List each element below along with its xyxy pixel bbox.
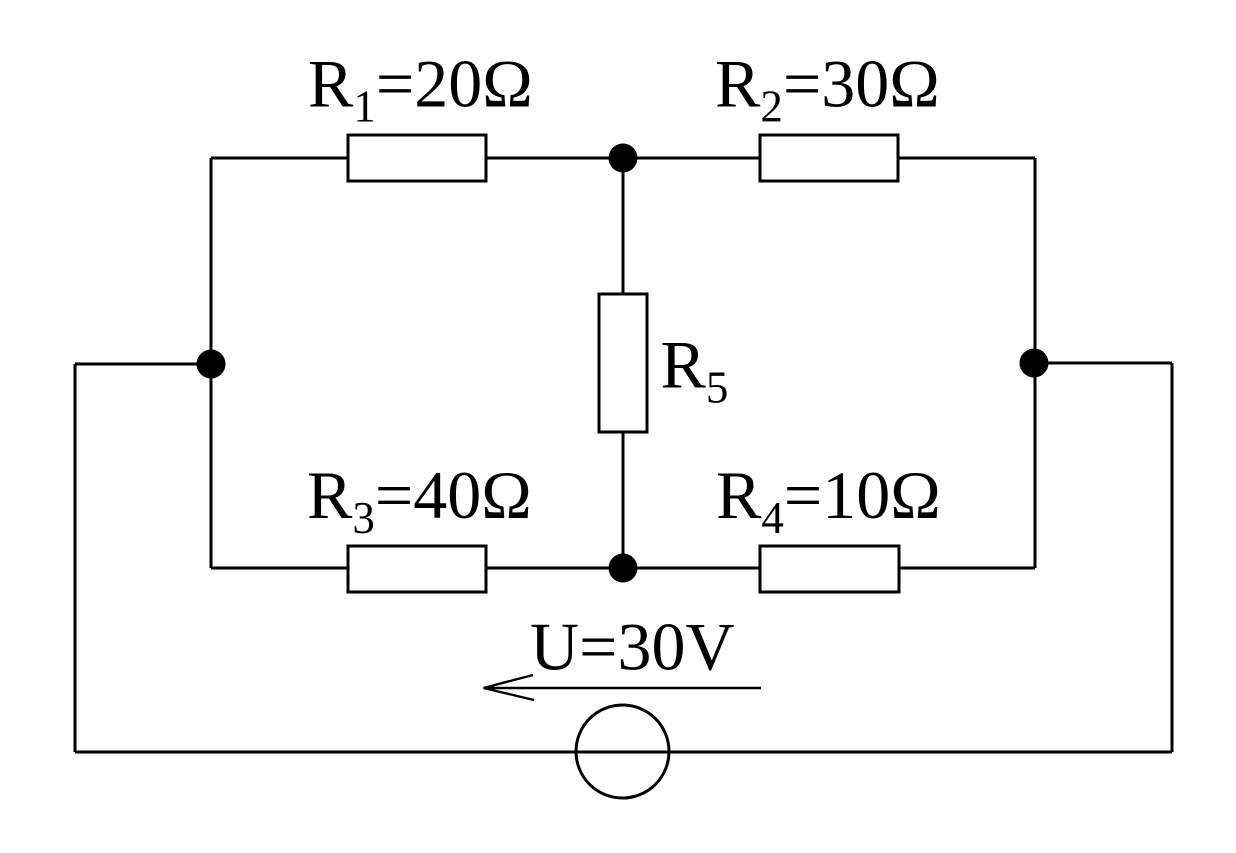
wire bottom-right segment (R4 to right corner) [899,567,1035,570]
wire outer left vertical [74,364,77,752]
svg-text:R2=30Ω: R2=30Ω [715,46,940,132]
svg-text:R3=40Ω: R3=40Ω [307,457,532,543]
wire middle upper vertical (node to R5) [622,158,625,294]
node right (junction R2-R4-source) [1020,349,1049,378]
wire top-middle segment (R1 to R2 through node) [486,157,760,160]
resistor R3 [348,546,486,592]
wire left node stub to outer loop [75,363,211,366]
wire middle lower vertical (R5 to bottom node) [622,432,625,568]
arrow U polarity (points left) [484,675,762,700]
wire bottom-left segment (left corner to R3) [211,567,348,570]
wire top-right segment (R2 to right corner) [898,157,1035,160]
wire left inner vertical [210,158,213,568]
svg-text:U=30V: U=30V [530,609,735,685]
node top (junction R1-R2-R5) [609,144,638,173]
resistor R5 [599,294,647,432]
wire outer right vertical [1171,363,1174,752]
wire right inner vertical [1034,158,1037,568]
wire top-left segment (left corner to R1) [211,157,348,160]
node left (junction R1-R3-source) [197,350,226,379]
svg-text:R1=20Ω: R1=20Ω [308,46,533,132]
resistor R1 [348,135,486,181]
resistor R4 [760,546,899,592]
node bottom (junction R3-R4-R5) [609,554,638,583]
wire right node stub to outer loop [1034,362,1172,365]
wire bottom-middle segment (R3 to R4 through node) [486,567,760,570]
voltage source U (circle) [576,705,669,798]
svg-text:R4=10Ω: R4=10Ω [716,457,941,543]
wire outer bottom horizontal (through source) [75,751,1172,754]
resistor R2 [760,135,898,181]
